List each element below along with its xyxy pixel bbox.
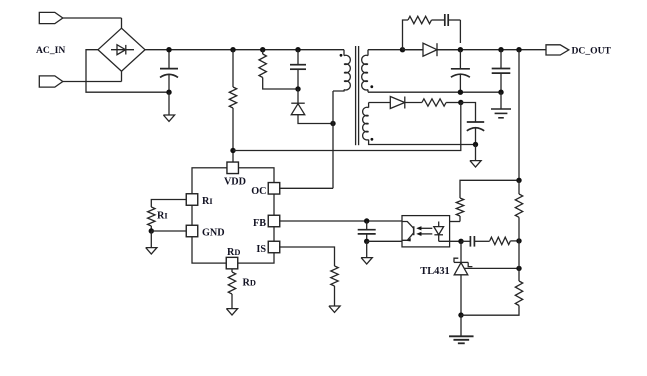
svg-text:VDD: VDD xyxy=(224,176,246,187)
svg-text:TL431: TL431 xyxy=(420,266,449,277)
svg-text:AC_IN: AC_IN xyxy=(36,45,65,56)
svg-text:FB: FB xyxy=(253,218,266,229)
svg-text:RI: RI xyxy=(202,196,213,207)
svg-text:RD: RD xyxy=(243,278,256,289)
svg-text:RD: RD xyxy=(227,247,240,258)
svg-text:OC: OC xyxy=(251,186,266,197)
svg-text:DC_OUT: DC_OUT xyxy=(572,45,612,56)
svg-text:GND: GND xyxy=(202,228,225,239)
svg-text:RI: RI xyxy=(157,210,168,221)
svg-text:IS: IS xyxy=(256,244,266,255)
